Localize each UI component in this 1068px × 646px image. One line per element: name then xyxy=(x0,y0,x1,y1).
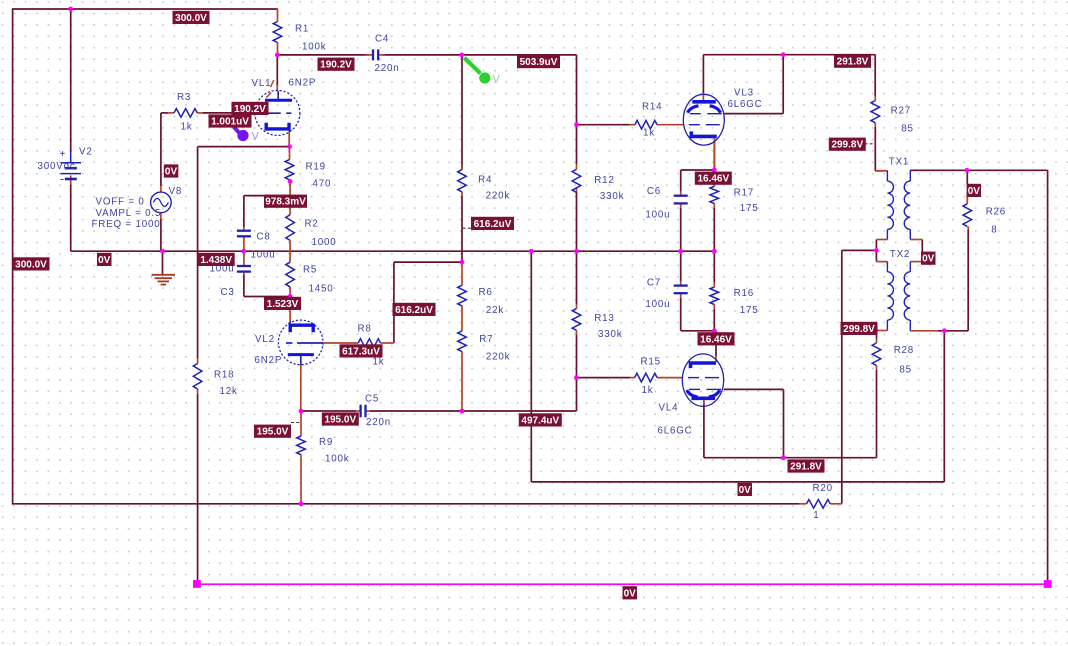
svg-text:6L6GC: 6L6GC xyxy=(658,426,693,437)
svg-text:100u: 100u xyxy=(645,299,670,310)
svg-text:R15: R15 xyxy=(641,357,661,368)
svg-text:C5: C5 xyxy=(365,394,379,405)
svg-text:-: - xyxy=(60,172,64,186)
svg-text:R12: R12 xyxy=(594,175,614,186)
svg-text:1k: 1k xyxy=(643,128,655,139)
svg-text:291.8V: 291.8V xyxy=(790,462,822,473)
svg-text:1: 1 xyxy=(813,510,819,521)
svg-text:R3: R3 xyxy=(177,92,191,103)
svg-text:1000: 1000 xyxy=(312,237,337,248)
svg-text:6N2P: 6N2P xyxy=(255,355,283,366)
svg-text:1450: 1450 xyxy=(309,284,334,295)
svg-text:300.0V: 300.0V xyxy=(15,259,47,270)
svg-text:220n: 220n xyxy=(366,417,391,428)
svg-text:VOFF = 0: VOFF = 0 xyxy=(96,197,145,208)
svg-text:V: V xyxy=(252,131,260,143)
svg-text:220n: 220n xyxy=(375,63,400,74)
svg-text:VL3: VL3 xyxy=(734,88,754,99)
svg-text:291.8V: 291.8V xyxy=(837,57,869,68)
svg-text:190.2V: 190.2V xyxy=(320,60,352,71)
svg-text:VL1: VL1 xyxy=(252,78,272,89)
svg-text:R4: R4 xyxy=(478,175,492,186)
svg-text:C4: C4 xyxy=(375,34,389,45)
svg-text:0V: 0V xyxy=(922,254,935,265)
svg-text:0V: 0V xyxy=(165,167,178,178)
svg-text:330k: 330k xyxy=(598,329,622,340)
svg-text:220k: 220k xyxy=(486,352,510,363)
svg-text:R2: R2 xyxy=(305,219,319,230)
svg-text:220k: 220k xyxy=(486,190,510,201)
svg-text:R14: R14 xyxy=(642,102,662,113)
svg-text:1.001uV: 1.001uV xyxy=(211,117,249,128)
svg-text:0V: 0V xyxy=(739,485,752,496)
svg-text:503.9uV: 503.9uV xyxy=(520,57,558,68)
svg-text:R1: R1 xyxy=(295,23,309,34)
svg-text:R13: R13 xyxy=(594,313,614,324)
svg-text:616.2uV: 616.2uV xyxy=(474,219,512,230)
svg-text:175: 175 xyxy=(740,203,759,214)
svg-text:100u: 100u xyxy=(645,209,670,220)
svg-text:C8: C8 xyxy=(257,232,271,243)
svg-text:R8: R8 xyxy=(358,324,372,335)
svg-text:470: 470 xyxy=(313,179,332,190)
svg-text:R26: R26 xyxy=(986,207,1006,218)
svg-text:V8: V8 xyxy=(169,186,183,197)
svg-text:616.2uV: 616.2uV xyxy=(395,305,433,316)
svg-text:R16: R16 xyxy=(734,288,754,299)
svg-text:16.46V: 16.46V xyxy=(700,334,732,345)
svg-text:12k: 12k xyxy=(220,386,238,397)
svg-text:1k: 1k xyxy=(373,357,385,368)
svg-text:R28: R28 xyxy=(894,345,914,356)
svg-text:100k: 100k xyxy=(325,454,349,465)
svg-text:VL2: VL2 xyxy=(255,334,275,345)
svg-text:0V: 0V xyxy=(98,255,111,266)
svg-text:R17: R17 xyxy=(734,188,754,199)
svg-text:300.0V: 300.0V xyxy=(175,13,207,24)
svg-text:100k: 100k xyxy=(302,41,326,52)
svg-text:R20: R20 xyxy=(813,483,833,494)
svg-text:8: 8 xyxy=(991,225,997,236)
svg-text:299.8V: 299.8V xyxy=(831,140,863,151)
svg-text:1k: 1k xyxy=(181,122,193,133)
svg-text:V2: V2 xyxy=(79,147,93,158)
svg-text:6N2P: 6N2P xyxy=(289,78,317,89)
svg-text:1.523V: 1.523V xyxy=(267,299,299,310)
svg-text:617.3uV: 617.3uV xyxy=(342,346,380,357)
svg-text:16.46V: 16.46V xyxy=(697,174,729,185)
svg-text:330k: 330k xyxy=(600,191,624,202)
svg-text:0V: 0V xyxy=(624,588,637,599)
svg-text:R9: R9 xyxy=(319,437,333,448)
svg-text:+: + xyxy=(60,149,66,160)
svg-text:C7: C7 xyxy=(647,278,661,289)
svg-text:85: 85 xyxy=(901,124,914,135)
svg-text:FREQ = 1000: FREQ = 1000 xyxy=(92,219,161,230)
svg-text:VAMPL = 0.5: VAMPL = 0.5 xyxy=(96,208,162,219)
svg-text:978.3mV: 978.3mV xyxy=(265,197,306,208)
svg-text:497.4uV: 497.4uV xyxy=(521,415,559,426)
svg-text:R6: R6 xyxy=(479,287,493,298)
svg-text:TX2: TX2 xyxy=(890,249,910,260)
svg-text:R7: R7 xyxy=(479,334,493,345)
svg-text:V: V xyxy=(493,74,501,86)
svg-text:R27: R27 xyxy=(891,106,911,117)
svg-text:R5: R5 xyxy=(303,265,317,276)
svg-text:TX1: TX1 xyxy=(889,157,909,168)
svg-text:85: 85 xyxy=(899,365,912,376)
svg-text:R19: R19 xyxy=(306,162,326,173)
svg-text:R18: R18 xyxy=(214,370,234,381)
svg-text:195.0V: 195.0V xyxy=(257,427,289,438)
svg-text:190.2V: 190.2V xyxy=(234,104,266,115)
svg-text:VL4: VL4 xyxy=(659,403,679,414)
svg-text:6L6GC: 6L6GC xyxy=(728,99,763,110)
svg-text:C6: C6 xyxy=(647,186,661,197)
svg-text:22k: 22k xyxy=(486,305,504,316)
svg-text:175: 175 xyxy=(740,305,759,316)
svg-text:1.438V: 1.438V xyxy=(200,255,232,266)
svg-text:195.0V: 195.0V xyxy=(324,415,356,426)
svg-text:C3: C3 xyxy=(221,287,235,298)
svg-text:1k: 1k xyxy=(642,385,654,396)
svg-text:100u: 100u xyxy=(251,250,276,261)
svg-text:299.8V: 299.8V xyxy=(843,324,875,335)
svg-text:0V: 0V xyxy=(968,186,981,197)
svg-text:300Vdc: 300Vdc xyxy=(38,161,76,172)
